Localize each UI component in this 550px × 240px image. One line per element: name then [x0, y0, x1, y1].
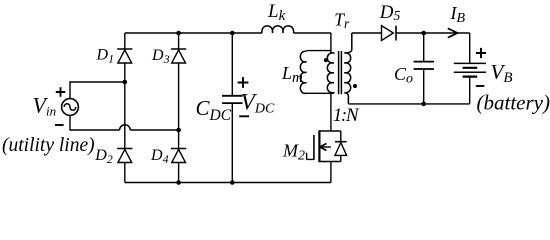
svg-text:D2: D2 — [94, 147, 113, 166]
svg-text:CDC: CDC — [196, 96, 232, 124]
svg-text:D1: D1 — [96, 46, 115, 65]
svg-text:Co: Co — [394, 64, 413, 87]
svg-text:D3: D3 — [151, 47, 170, 66]
svg-text:(battery): (battery) — [477, 91, 550, 115]
svg-text:1:N: 1:N — [333, 105, 360, 126]
svg-text:D4: D4 — [150, 147, 169, 166]
svg-text:D5: D5 — [379, 2, 401, 23]
svg-text:Lk: Lk — [267, 1, 286, 24]
svg-text:M2: M2 — [282, 141, 305, 164]
svg-text:Vin: Vin — [33, 93, 57, 119]
svg-text:(utility line): (utility line) — [2, 135, 95, 156]
svg-text:VDC: VDC — [241, 89, 275, 116]
svg-text:IB: IB — [450, 3, 466, 26]
svg-text:VB: VB — [491, 60, 513, 86]
svg-text:Tr: Tr — [334, 10, 350, 32]
